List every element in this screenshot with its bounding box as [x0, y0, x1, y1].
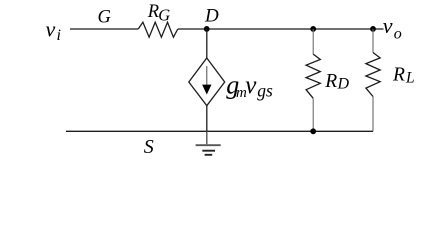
resistor RG (horizontal zigzag) [138, 22, 178, 37]
wire: vertical from current source down to bottom wire [206, 106, 208, 132]
wire: RD branch top stub [312, 29, 314, 54]
label RL [392, 65, 415, 87]
svg-text:G: G [158, 6, 170, 25]
svg-text:S: S [144, 136, 154, 158]
junction dot at vo node [370, 26, 376, 32]
svg-text:gs: gs [257, 81, 273, 101]
svg-text:R: R [324, 71, 337, 92]
svg-text:v: v [245, 72, 257, 99]
svg-text:L: L [405, 69, 415, 86]
label RD [324, 71, 349, 93]
svg-text:G: G [98, 8, 111, 28]
wire: top wire from RG through node D to vo [178, 28, 384, 30]
wire: RD branch bottom stub [312, 98, 314, 131]
label gm vgs [226, 71, 273, 102]
wire: bottom wire (node S) [66, 130, 373, 132]
svg-text:i: i [57, 27, 61, 44]
junction dot at bottom of RD branch [310, 128, 316, 134]
dependent current source gm*vgs (diamond with down arrow) [189, 58, 225, 106]
junction dot at top of RD branch [310, 26, 316, 32]
svg-text:D: D [337, 76, 350, 93]
svg-text:D: D [204, 6, 219, 27]
wire: RL branch bottom stub [372, 97, 374, 132]
resistor RL (vertical zigzag) [366, 53, 380, 97]
svg-text:v: v [46, 16, 56, 41]
svg-text:o: o [394, 25, 402, 42]
ground [196, 131, 221, 155]
wire: top wire from vi to resistor RG [70, 28, 138, 30]
svg-text:v: v [383, 13, 393, 38]
svg-text:R: R [392, 65, 405, 86]
node D junction dot [204, 26, 210, 32]
label RG [147, 2, 170, 25]
label vi (input voltage) [46, 16, 61, 44]
resistor RD (vertical zigzag) [306, 54, 320, 98]
wire: RL branch top stub [372, 29, 374, 53]
label vo (output voltage) [383, 13, 402, 43]
wire: vertical from node D down to current source [206, 29, 208, 58]
